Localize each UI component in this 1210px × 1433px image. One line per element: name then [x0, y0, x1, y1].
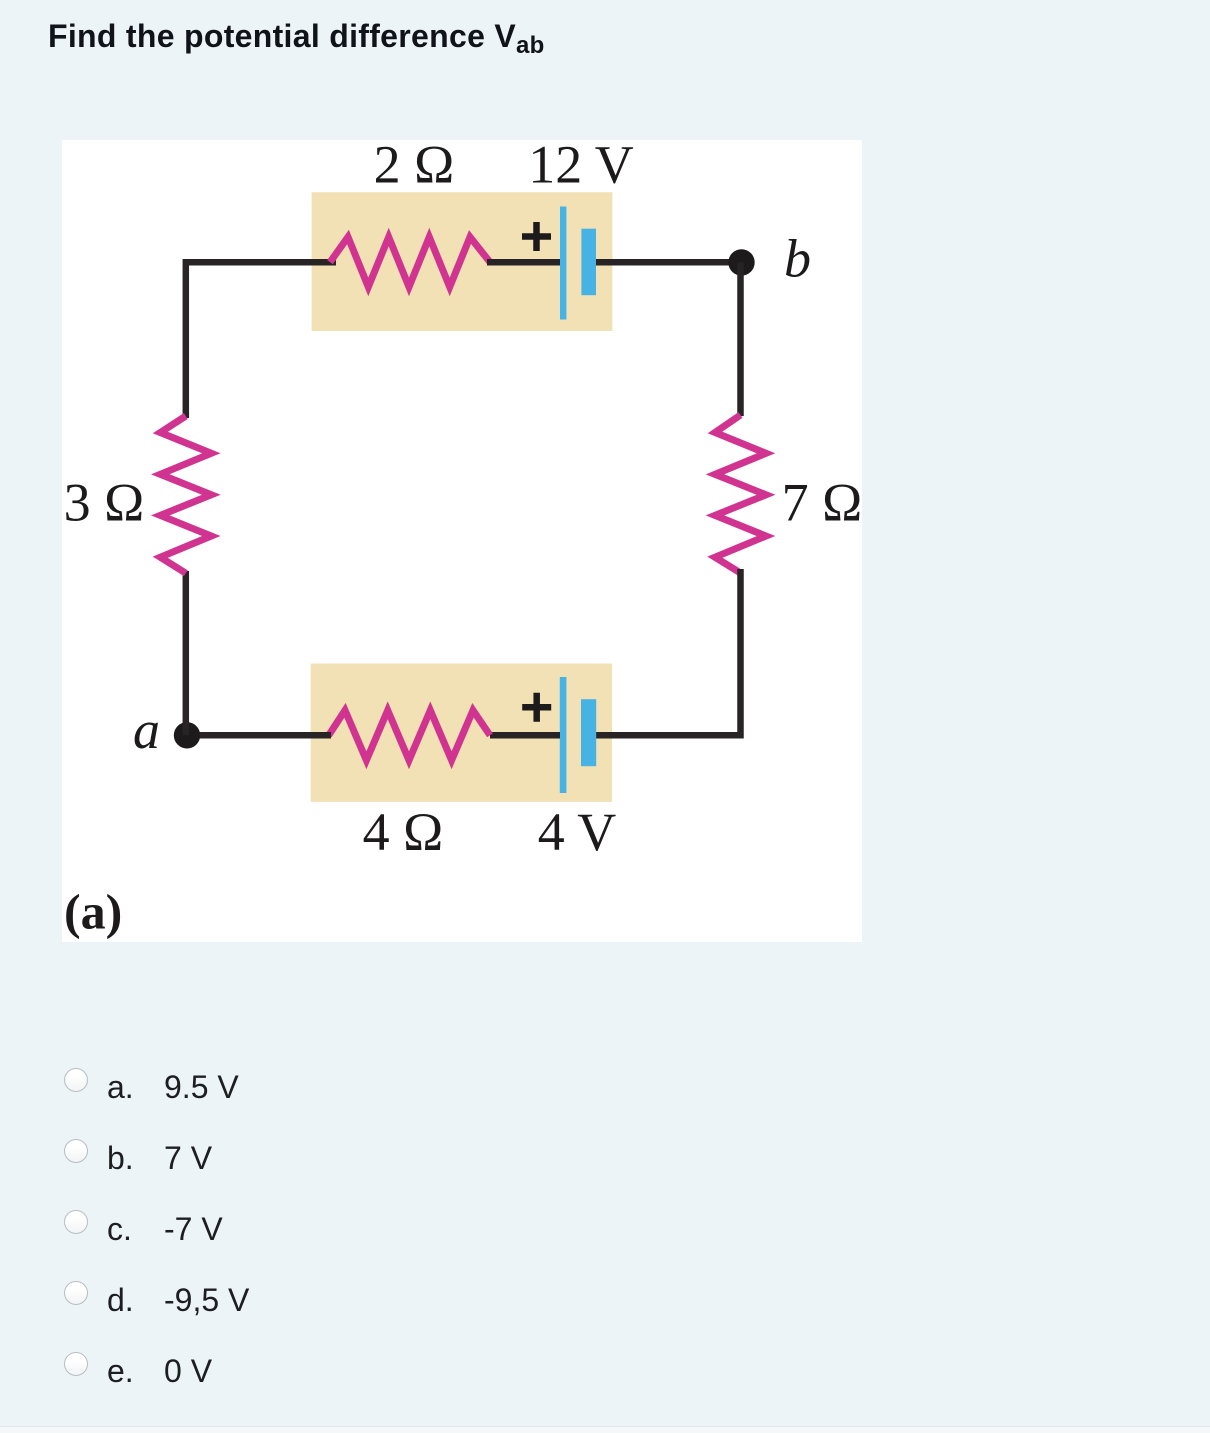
- svg-text:b: b: [784, 229, 811, 289]
- wire top-left corner: [186, 262, 336, 418]
- svg-text:12 V: 12 V: [528, 140, 634, 194]
- highlight box bottom (R4 + 4V battery): [311, 664, 612, 802]
- svg-text:2 Ω: 2 Ω: [374, 140, 455, 194]
- svg-text:3 Ω: 3 Ω: [64, 473, 145, 533]
- option d: [65, 1282, 765, 1322]
- resistor R3 3Ω zigzag: [160, 416, 211, 573]
- option b: [65, 1140, 765, 1180]
- bottom strip: [0, 1426, 1210, 1433]
- option c: [65, 1211, 765, 1251]
- wire battery V1 to node b: [596, 259, 742, 266]
- wire 7Ω to bottom-right corner: [596, 569, 741, 735]
- battery V1 12V short plate: [581, 229, 596, 296]
- wire R1 to battery V1: [487, 259, 560, 266]
- svg-text:4 Ω: 4 Ω: [363, 802, 444, 862]
- resistor R2 7Ω zigzag: [715, 415, 766, 573]
- wire node b down: [737, 262, 744, 416]
- battery V2 4V long plate: [560, 677, 567, 793]
- wire battery V2 to R4: [490, 732, 560, 739]
- svg-text:a: a: [133, 700, 160, 760]
- svg-text:4 V: 4 V: [538, 802, 617, 862]
- battery V2 4V short plate: [581, 699, 596, 766]
- plus sign V2: [522, 693, 551, 722]
- svg-text:(a): (a): [64, 884, 122, 940]
- option a: [65, 1069, 765, 1109]
- node a dot: [174, 722, 200, 748]
- highlight box top (R1 + 12V battery): [312, 192, 613, 331]
- wire R4 to node a: [187, 732, 331, 739]
- resistor R1 2Ω zigzag: [330, 237, 490, 287]
- resistor R4 4Ω zigzag: [329, 710, 490, 760]
- option e: [65, 1353, 765, 1393]
- plus sign V1: [522, 222, 551, 251]
- title: [48, 18, 545, 55]
- node b dot: [728, 249, 754, 275]
- svg-text:7 Ω: 7 Ω: [782, 473, 862, 533]
- wire node a up: [183, 571, 190, 735]
- answer options: [0, 0, 1, 1]
- circuit panel: [62, 140, 862, 942]
- battery V1 12V long plate: [560, 207, 566, 320]
